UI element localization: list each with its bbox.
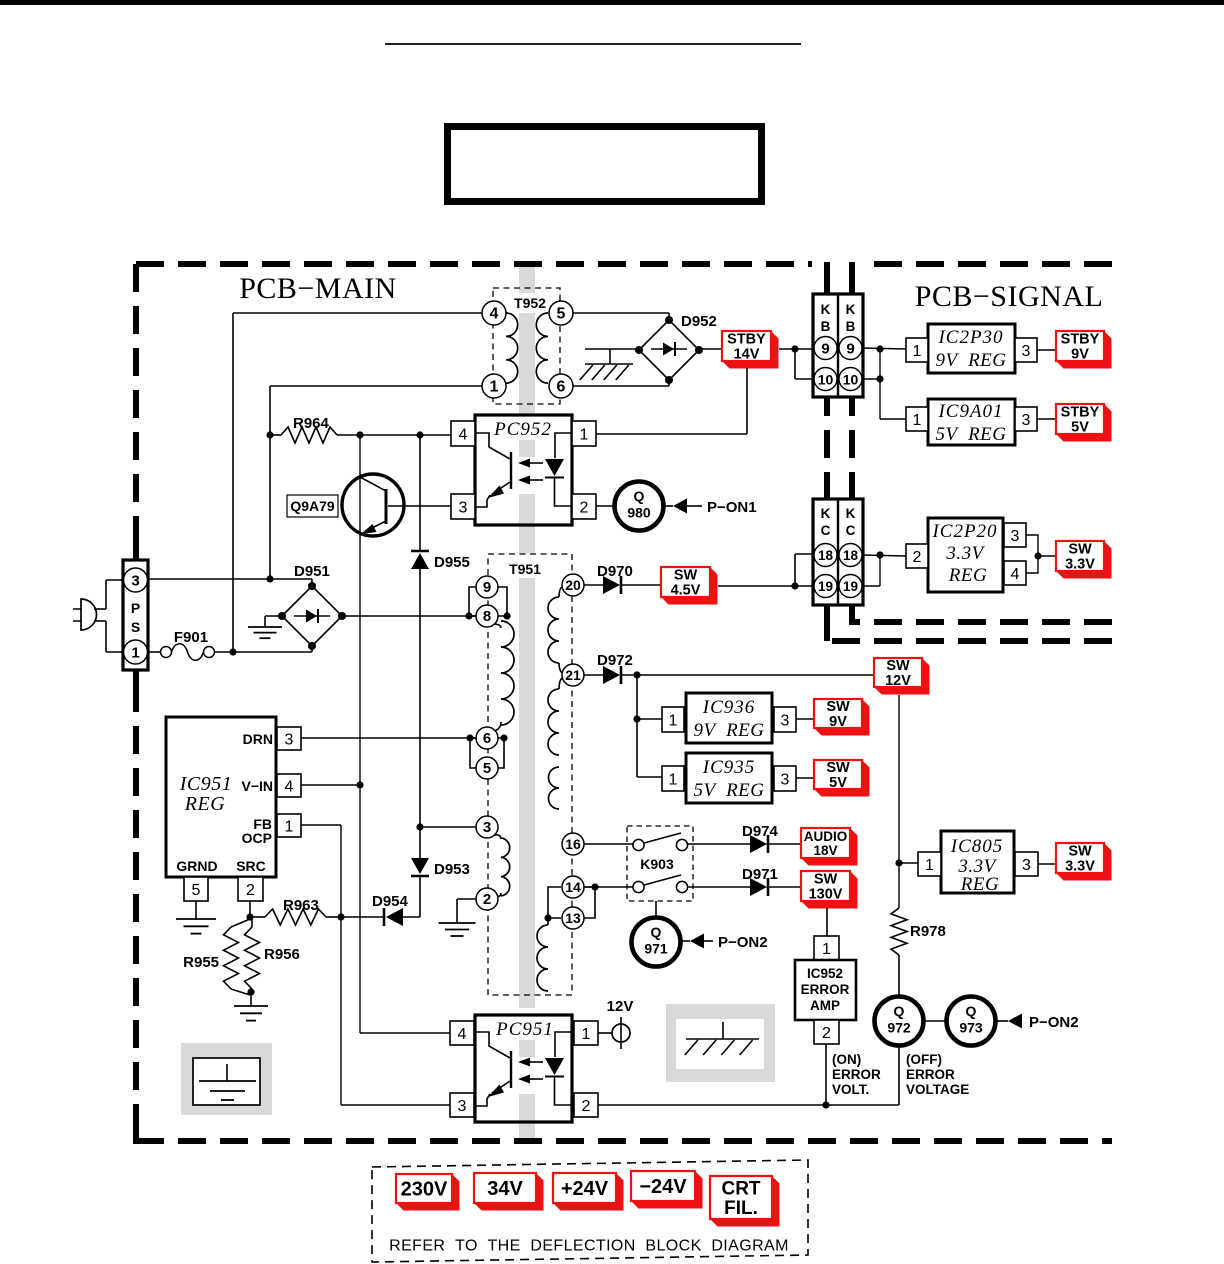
svg-text:R956: R956: [264, 946, 300, 963]
svg-text:3.3V: 3.3V: [945, 543, 985, 564]
IC951 pin 5: [184, 877, 208, 901]
svg-text:1: 1: [925, 857, 934, 874]
svg-text:ERROR: ERROR: [832, 1067, 881, 1082]
svg-text:SW: SW: [674, 568, 698, 584]
svg-text:3: 3: [483, 819, 491, 836]
svg-text:3: 3: [285, 731, 294, 748]
IC9A01 pin 1: [906, 407, 928, 431]
svg-text:P−ON2: P−ON2: [718, 934, 768, 951]
PC952 pin 4: [451, 421, 475, 446]
optocoupler PC952: [475, 415, 572, 525]
svg-text:B: B: [846, 319, 856, 334]
T951 pin 3: [476, 816, 498, 838]
svg-text:4: 4: [1011, 566, 1020, 583]
svg-text:13: 13: [565, 910, 581, 926]
svg-text:10: 10: [818, 372, 834, 388]
svg-text:F901: F901: [174, 629, 208, 646]
svg-text:GRND: GRND: [176, 858, 217, 874]
STBY 5V output label: [1056, 404, 1112, 442]
svg-text:P: P: [131, 600, 140, 616]
svg-text:2: 2: [246, 882, 255, 899]
svg-text:3: 3: [459, 499, 468, 516]
svg-text:R963: R963: [283, 897, 319, 914]
chassis ground plate: [666, 1004, 775, 1082]
svg-text:4: 4: [285, 778, 294, 795]
svg-text:14: 14: [565, 879, 581, 895]
wire IC951 SRC node: [249, 901, 251, 917]
svg-text:P−ON2: P−ON2: [1029, 1014, 1079, 1031]
PC951 pin 2: [574, 1093, 598, 1117]
IC805 pin 1: [918, 852, 941, 876]
svg-text:9V: 9V: [829, 714, 847, 730]
svg-text:IC935: IC935: [702, 757, 756, 778]
wire IC936 to SW 9V: [796, 718, 814, 720]
T951 pins 9 and 8 strap: [469, 587, 507, 616]
svg-text:IC805: IC805: [950, 836, 1004, 857]
svg-text:3: 3: [458, 1098, 467, 1115]
wire PC952 pin2 to Q980: [596, 505, 614, 507]
svg-text:STBY: STBY: [727, 332, 766, 348]
svg-text:3: 3: [781, 771, 790, 788]
svg-text:Q: Q: [966, 1003, 977, 1019]
wire IC805 to SW 3.3V: [1038, 863, 1056, 865]
transistor Q973: [947, 997, 996, 1046]
svg-text:1: 1: [285, 818, 294, 835]
svg-text:2: 2: [580, 499, 589, 516]
T951 pin 16: [562, 833, 584, 855]
diode D955: [411, 551, 470, 571]
svg-text:Q: Q: [651, 924, 662, 940]
wire T952 pin1 to mains node: [270, 386, 482, 579]
junction: [229, 648, 236, 655]
junction: [1034, 552, 1041, 559]
svg-text:R964: R964: [293, 415, 330, 432]
svg-text:VOLT.: VOLT.: [832, 1082, 869, 1097]
svg-text:1: 1: [669, 771, 678, 788]
optocoupler PC951: [475, 1015, 572, 1122]
junction: [465, 612, 472, 619]
transformer T951: [488, 554, 572, 995]
SW 3.3V output label at IC805: [1056, 843, 1112, 881]
IC951 pin 3: [277, 727, 301, 750]
svg-text:B: B: [821, 319, 831, 334]
connector KB: [813, 294, 863, 397]
wire K903 to Q971: [655, 901, 657, 918]
connector KC: [813, 499, 863, 605]
svg-text:Q9A79: Q9A79: [290, 498, 335, 514]
PCB-SIGNAL board outline: [849, 262, 1112, 622]
svg-text:IC952: IC952: [807, 966, 843, 981]
IC805 pin 3: [1015, 852, 1038, 876]
Q9A79 label: [287, 495, 338, 517]
wire Q9A79 base to PC952 pin3: [388, 505, 451, 507]
wire Q972 to error voltage line: [898, 1046, 900, 1105]
wire IC951 V-IN tap: [301, 784, 360, 786]
svg-text:2: 2: [582, 1098, 591, 1115]
junction: [247, 988, 254, 995]
svg-text:R955: R955: [183, 954, 219, 971]
resistor R964: [270, 415, 337, 443]
svg-text:PCB−MAIN: PCB−MAIN: [239, 272, 397, 305]
SW 4.5V output label: [661, 567, 718, 605]
transistor Q971: [632, 918, 681, 967]
svg-text:STBY: STBY: [1061, 405, 1100, 421]
isolation barrier band: [519, 264, 535, 1141]
svg-text:1: 1: [582, 1026, 591, 1043]
PC952 pin 2: [572, 494, 596, 519]
svg-text:19: 19: [843, 579, 858, 594]
signal ground plate: [181, 1043, 272, 1115]
wire to IC936 IC935 inputs: [637, 675, 662, 777]
wire IC951 DRN to T951 pin6: [301, 737, 476, 739]
IC2P20 pin 2: [906, 544, 928, 568]
wire T951 pin20 to D970: [584, 584, 603, 586]
IC IC936 9V regulator: [686, 693, 772, 743]
T951 pins 6 and 5 strap: [470, 738, 504, 768]
wire V-IN rail to PC951 pin4: [360, 1032, 450, 1034]
svg-text:D953: D953: [434, 861, 470, 878]
wire R964 to PC952 pin4: [337, 434, 451, 436]
svg-text:6: 6: [557, 379, 566, 396]
svg-text:D951: D951: [294, 563, 330, 580]
junction: [356, 781, 363, 788]
svg-text:8: 8: [483, 608, 491, 625]
svg-text:3: 3: [1022, 857, 1031, 874]
svg-text:2: 2: [822, 1025, 831, 1042]
wire IC952 pin2 to error voltage line: [825, 1044, 827, 1105]
SW 5V output label: [814, 760, 870, 797]
svg-text:9V: 9V: [1071, 347, 1089, 363]
svg-text:Q: Q: [894, 1003, 905, 1019]
T951 pin 14: [562, 876, 584, 898]
svg-text:SW: SW: [886, 658, 910, 674]
34V output label: [474, 1173, 544, 1211]
wire KB to 9V 5V regulators: [862, 348, 906, 419]
junction: [591, 883, 598, 890]
junction: [337, 913, 344, 920]
svg-text:V−IN: V−IN: [241, 778, 273, 794]
svg-text:D972: D972: [597, 652, 633, 669]
svg-text:1: 1: [913, 343, 922, 360]
svg-text:5V REG: 5V REG: [693, 780, 764, 801]
junction: [791, 582, 798, 589]
wire T951 pin16 to K903: [584, 843, 633, 845]
wire collector rail Q9A79: [359, 435, 361, 1033]
wire to IC805 pin1: [899, 862, 918, 864]
diode D954: [341, 893, 420, 926]
svg-text:D970: D970: [597, 563, 633, 580]
relay K903: [627, 826, 693, 901]
svg-text:9: 9: [846, 341, 854, 358]
junction: [822, 1101, 829, 1108]
IC IC951 regulator: [166, 717, 276, 877]
svg-text:9: 9: [483, 579, 491, 596]
PC951 pin 1: [574, 1021, 598, 1045]
svg-text:AMP: AMP: [810, 998, 840, 1013]
svg-text:12V: 12V: [885, 673, 911, 689]
P-ON2 input arrow at Q973: [996, 1014, 1079, 1032]
12V terminal: [598, 998, 633, 1049]
P-ON1 input arrow: [664, 499, 757, 517]
wire STBY 14V to PC952 pin1: [596, 368, 747, 434]
svg-text:S: S: [131, 619, 140, 635]
bridge rectifier D951: [278, 563, 346, 650]
svg-text:9: 9: [821, 341, 829, 358]
IC935 pin 1: [662, 766, 684, 791]
junction: [876, 551, 883, 558]
wire T951 pin14 to K903: [584, 886, 633, 888]
transistor Q972: [875, 997, 924, 1046]
svg-text:3.3V: 3.3V: [1065, 557, 1095, 573]
PC951 pin 4: [450, 1021, 474, 1045]
wire D972 to SW 12V: [622, 674, 874, 676]
wire PC951 pin2 error voltage line: [598, 1104, 899, 1106]
transistor Q9A79: [342, 474, 404, 536]
wire Q972 to Q973: [924, 1020, 946, 1022]
IC951 pin 1: [277, 814, 301, 837]
connector P-S: [123, 560, 148, 670]
(OFF) ERROR VOLTAGE note: [906, 1052, 969, 1097]
svg-text:C: C: [846, 523, 856, 538]
wire SW 130V to IC952: [826, 908, 828, 936]
wire SW 12V rail: [898, 695, 900, 908]
svg-text:SW: SW: [1068, 542, 1092, 558]
svg-text:980: 980: [627, 505, 651, 521]
IC IC2P20 3.3V regulator: [928, 518, 1003, 592]
svg-text:1: 1: [822, 941, 831, 958]
svg-text:16: 16: [565, 836, 581, 852]
wire anode rail D955: [419, 435, 421, 551]
svg-text:(ON): (ON): [832, 1052, 861, 1067]
svg-text:K: K: [821, 506, 831, 521]
svg-text:5: 5: [557, 306, 566, 323]
svg-text:(OFF): (OFF): [906, 1052, 942, 1067]
svg-text:3: 3: [1022, 343, 1031, 360]
junction: [895, 859, 902, 866]
SW 12V output label: [874, 658, 930, 695]
ground at IC951 GRND: [176, 901, 216, 934]
T951 pin 2: [476, 888, 498, 910]
connector stems on board outlines: [136, 262, 852, 1144]
svg-text:5V: 5V: [1071, 420, 1089, 436]
STBY 14V output label: [722, 331, 779, 369]
AUDIO 18V output label: [801, 828, 858, 866]
diode D971: [742, 866, 778, 896]
svg-text:10: 10: [843, 372, 859, 388]
svg-text:5: 5: [192, 882, 201, 899]
svg-text:D955: D955: [434, 554, 470, 571]
svg-text:IC2P30: IC2P30: [937, 327, 1003, 348]
-24V output label: [631, 1171, 703, 1209]
resistor R963: [250, 897, 341, 925]
svg-text:REG: REG: [184, 793, 225, 815]
wire D971 to SW 130V: [769, 886, 801, 888]
wire D953 to D954: [419, 876, 421, 917]
svg-text:972: 972: [887, 1020, 911, 1036]
junction: [416, 431, 423, 438]
svg-text:D954: D954: [372, 893, 409, 910]
svg-text:19: 19: [818, 579, 833, 594]
resistor R956: [245, 917, 300, 993]
wire IC2P20 outputs to SW 3.3V: [1026, 535, 1056, 573]
wire T952 pin4 to fuse node: [233, 313, 482, 652]
mains plug: [73, 599, 106, 630]
svg-text:IC9A01: IC9A01: [937, 401, 1003, 422]
svg-text:T952: T952: [514, 295, 546, 311]
svg-text:IC936: IC936: [702, 697, 756, 718]
svg-text:14V: 14V: [734, 347, 760, 363]
svg-text:20: 20: [565, 577, 581, 593]
svg-text:T951: T951: [509, 561, 541, 577]
svg-text:9V REG: 9V REG: [693, 720, 764, 741]
wire STBY 14V to connector KB: [779, 349, 813, 379]
svg-text:1: 1: [580, 426, 589, 443]
resistor R978: [891, 908, 946, 955]
rectifier D952: [635, 313, 717, 384]
PC952 pin 3: [451, 494, 475, 519]
transistor Q980: [615, 482, 664, 531]
junction: [266, 431, 273, 438]
(ON) ERROR VOLT. note: [832, 1052, 881, 1097]
wire IC9A01 to STBY 5V: [1037, 418, 1056, 420]
IC952 pin 2: [814, 1020, 839, 1044]
svg-text:OCP: OCP: [242, 830, 272, 846]
IC IC9A01 5V regulator: [928, 399, 1015, 445]
svg-text:IC951: IC951: [179, 773, 233, 795]
wire IC2P30 to STBY 9V: [1037, 349, 1056, 351]
STBY 9V output label: [1056, 331, 1112, 369]
junction: [500, 734, 507, 741]
junction: [503, 612, 510, 619]
resistor R955: [183, 919, 250, 995]
svg-text:−24V: −24V: [639, 1176, 687, 1198]
svg-text:4: 4: [490, 306, 499, 323]
IC935 pin 3: [774, 766, 796, 791]
svg-text:REG: REG: [948, 565, 987, 586]
svg-text:230V: 230V: [401, 1179, 448, 1201]
SW 9V output label: [814, 699, 870, 736]
IC IC805 3.3V regulator: [941, 831, 1014, 895]
transformer T952: [482, 288, 573, 404]
wire SW 4.5V to connector KC: [718, 554, 813, 586]
svg-text:1: 1: [490, 379, 499, 396]
svg-text:4: 4: [458, 1026, 467, 1043]
ground at T951 pin2: [439, 899, 477, 936]
T951 pin 6: [476, 727, 498, 749]
svg-text:5V: 5V: [829, 775, 847, 791]
svg-text:PC952: PC952: [493, 419, 552, 440]
svg-text:STBY: STBY: [1061, 332, 1100, 348]
svg-text:12V: 12V: [607, 998, 634, 1015]
junction: [544, 914, 551, 921]
svg-text:PC951: PC951: [495, 1019, 554, 1040]
svg-text:SW: SW: [826, 760, 850, 776]
svg-text:21: 21: [565, 667, 581, 683]
svg-text:REG: REG: [960, 874, 999, 895]
junction: [633, 715, 640, 722]
svg-text:SW: SW: [814, 872, 838, 888]
IC951 pin 2: [238, 877, 263, 901]
svg-text:K903: K903: [640, 856, 674, 872]
wire D974 to AUDIO 18V: [769, 843, 801, 845]
svg-text:3: 3: [131, 573, 139, 590]
junction: [466, 734, 473, 741]
wire strap to winding: [547, 918, 549, 925]
diode D972: [597, 652, 633, 684]
T951 pin 8: [476, 605, 498, 627]
svg-text:FIL.: FIL.: [724, 1198, 758, 1219]
wire fuse to bridge D951: [214, 646, 312, 652]
PC951 pin 3: [450, 1093, 474, 1117]
SW 130V output label: [801, 871, 858, 909]
svg-text:D952: D952: [681, 313, 717, 330]
wire K903 to D971: [687, 886, 750, 888]
junction: [416, 823, 423, 830]
svg-text:P−ON1: P−ON1: [707, 499, 757, 516]
svg-text:1: 1: [669, 712, 678, 729]
junction: [876, 375, 883, 382]
T951 pin 13: [562, 907, 584, 929]
svg-text:1: 1: [131, 645, 139, 662]
junction: [876, 345, 883, 352]
svg-text:18: 18: [818, 548, 834, 563]
T951 pin 5: [476, 757, 498, 779]
junction: [246, 913, 253, 920]
svg-text:4: 4: [459, 426, 468, 443]
diode D974: [742, 823, 779, 853]
IC IC935 5V regulator: [686, 753, 772, 803]
junction: [266, 575, 273, 582]
wire T952 pin5 to D952: [573, 313, 669, 320]
wire plug to connector P-S: [106, 580, 123, 652]
T951 pin 9: [476, 576, 498, 598]
svg-text:SRC: SRC: [236, 858, 266, 874]
svg-text:18: 18: [843, 548, 859, 563]
+24V output label: [553, 1173, 624, 1211]
svg-text:PCB−SIGNAL: PCB−SIGNAL: [915, 280, 1104, 313]
svg-text:SW: SW: [1068, 844, 1092, 860]
svg-text:34V: 34V: [487, 1178, 523, 1200]
junction: [633, 671, 640, 678]
IC IC2P30 9V regulator: [928, 324, 1015, 373]
svg-text:4.5V: 4.5V: [671, 583, 701, 599]
svg-text:C: C: [821, 523, 831, 538]
junction: [791, 345, 798, 352]
svg-text:9V REG: 9V REG: [935, 350, 1006, 371]
wire KC to IC2P20: [862, 555, 906, 586]
IC936 pin 1: [662, 707, 684, 732]
svg-text:Q: Q: [634, 488, 645, 504]
ground at D951: [248, 616, 282, 638]
IC952 pin 1: [814, 936, 839, 960]
svg-text:REFER TO THE DEFLECTION BL: REFER TO THE DEFLECTION BLOCK DIAGRAM: [389, 1238, 789, 1255]
T951 pin 21: [562, 664, 584, 686]
IC2P20 pin 4: [1004, 561, 1026, 585]
svg-text:2: 2: [913, 549, 922, 566]
svg-text:ERROR: ERROR: [801, 982, 850, 997]
IC IC952 error amp: [795, 960, 856, 1020]
svg-text:D971: D971: [742, 866, 778, 883]
svg-text:2: 2: [483, 891, 491, 908]
IC951 pin 4: [277, 774, 301, 797]
IC2P30 pin 1: [906, 338, 928, 362]
SW 3.3V output label: [1056, 541, 1112, 579]
chassis ground at D952: [580, 349, 639, 380]
svg-text:CRT: CRT: [721, 1179, 760, 1200]
IC2P30 pin 3: [1015, 338, 1037, 362]
svg-text:18V: 18V: [813, 843, 837, 858]
svg-text:3: 3: [1011, 528, 1020, 545]
